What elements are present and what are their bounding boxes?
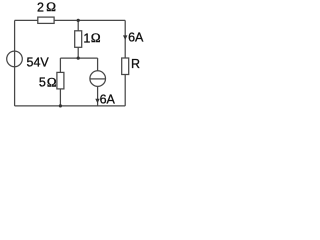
- junction dot node middle: [77, 57, 80, 60]
- wire 5 ohm branch upper stub: [59, 58, 61, 72]
- current source 6A circle: [90, 71, 106, 87]
- svg-text:1: 1: [83, 31, 90, 45]
- wire current source upper stub: [97, 58, 99, 71]
- junction dot node bottom: [59, 104, 62, 107]
- svg-text:6A: 6A: [128, 31, 144, 45]
- wire bottom: [15, 105, 126, 107]
- resistor 2 ohm box: [38, 17, 54, 23]
- wire current source lower stub: [97, 86, 99, 106]
- wire 1 ohm branch lower stub: [77, 47, 79, 58]
- resistor R box: [122, 58, 129, 75]
- wire 1 ohm branch upper stub: [77, 20, 79, 30]
- svg-text:Ω: Ω: [46, 0, 56, 14]
- svg-text:5: 5: [39, 76, 46, 90]
- arrow current source direction: [95, 99, 99, 104]
- svg-text:Ω: Ω: [47, 75, 57, 90]
- resistor 5 ohm box: [57, 72, 64, 89]
- junction dot node top: [77, 19, 80, 22]
- wire top-right segment: [54, 19, 125, 21]
- wire 5 ohm branch lower stub: [59, 89, 61, 106]
- resistor 1 ohm box: [75, 31, 82, 48]
- wire right branch lower: [124, 75, 126, 106]
- voltage source 54V circle: [7, 51, 23, 67]
- current source horizontal bar: [90, 78, 105, 80]
- wire middle horizontal: [60, 57, 97, 59]
- arrow current 6A right branch: [123, 35, 127, 40]
- svg-text:2: 2: [37, 0, 44, 14]
- svg-text:R: R: [131, 57, 140, 71]
- wire left branch: [14, 20, 16, 106]
- wire right branch upper: [124, 20, 126, 58]
- svg-text:6A: 6A: [100, 93, 116, 107]
- svg-text:54V: 54V: [27, 55, 50, 69]
- svg-text:Ω: Ω: [91, 30, 101, 45]
- wire top-left segment: [15, 19, 38, 21]
